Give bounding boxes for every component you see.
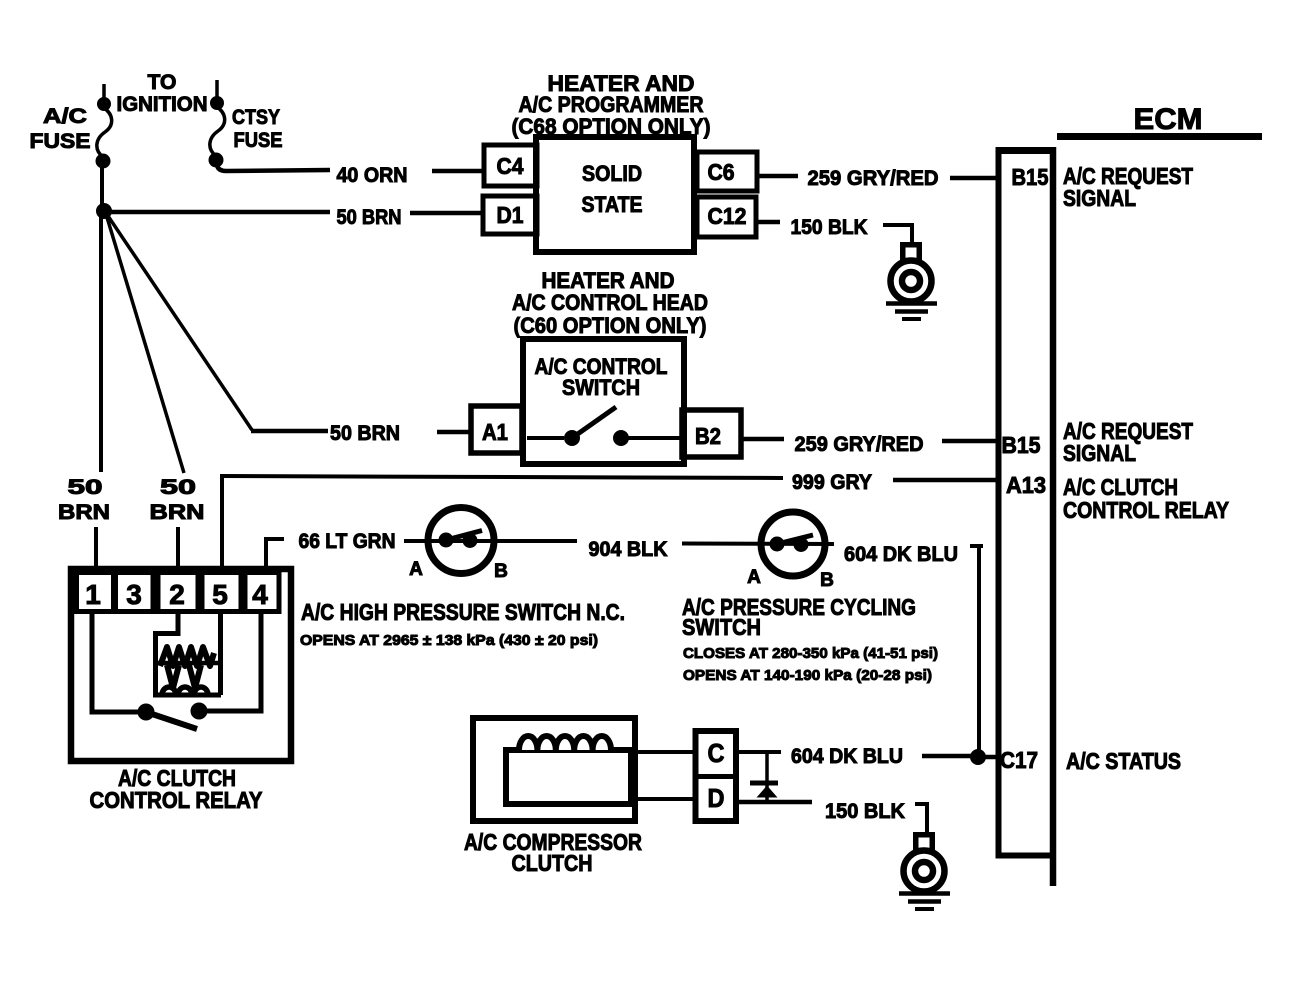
svg-text:2: 2 — [169, 579, 185, 610]
relay pin 4 — [245, 573, 279, 612]
wire 150 BLK to ground G1 — [883, 225, 912, 244]
wire to relay pin 1 — [94, 527, 98, 571]
wire B2 to 259 GRY/RED — [739, 437, 784, 442]
wire 40 ORN to C4 — [432, 169, 486, 174]
fuse CTSY FUSE — [209, 97, 225, 168]
svg-text:50 BRN: 50 BRN — [337, 206, 402, 229]
fuse A/C FUSE — [96, 98, 112, 169]
svg-text:A/C: A/C — [43, 105, 87, 128]
wire 259 GRY/RED to ECM B15 — [950, 176, 997, 181]
wire to relay pin 2 — [176, 527, 180, 571]
wire diagonal junction to relay pin 2 — [106, 214, 184, 473]
svg-text:B15: B15 — [1002, 432, 1041, 458]
wire 66 LT GRN elbow to relay pin 4 — [266, 539, 284, 570]
junction node — [97, 204, 112, 219]
programmer SOLID STATE box — [536, 137, 694, 252]
svg-text:150 BLK: 150 BLK — [791, 216, 868, 239]
wire horizontal to 50 BRN (A1 row) — [251, 429, 328, 434]
svg-text:CLUTCH: CLUTCH — [512, 850, 593, 876]
wire 259 GRY/RED to ECM B15 row 2 — [942, 439, 997, 444]
wire 999 GRY horizontal — [222, 476, 783, 478]
svg-text:CTSY: CTSY — [232, 106, 280, 129]
svg-text:A1: A1 — [482, 419, 508, 445]
wire 66 LT GRN to high pressure switch — [404, 539, 577, 543]
wire pin D to 150 BLK — [736, 800, 812, 805]
wire coil to pin C — [633, 750, 697, 754]
wire 999 GRY to ECM A13 — [893, 478, 997, 483]
svg-text:C: C — [708, 738, 725, 768]
wire stub above A/C fuse — [102, 84, 106, 98]
wire C6 to 259 GRY/RED — [757, 174, 798, 179]
svg-text:SOLID: SOLID — [582, 161, 642, 186]
connector pin C4 — [484, 145, 537, 186]
wire from CTSY fuse to 40 ORN — [217, 165, 330, 171]
svg-text:SWITCH: SWITCH — [562, 375, 640, 400]
connector C/D housing — [696, 731, 737, 821]
wire relay switch to pin 4 — [207, 613, 261, 711]
svg-text:50: 50 — [68, 476, 103, 499]
svg-text:999 GRY: 999 GRY — [792, 471, 872, 494]
svg-text:A: A — [409, 559, 423, 580]
svg-text:50: 50 — [160, 476, 196, 499]
svg-text:OPENS AT 2965 ± 138 kPa (430 ±: OPENS AT 2965 ± 138 kPa (430 ± 20 psi) — [300, 632, 598, 649]
svg-text:3: 3 — [126, 579, 142, 610]
wire stub above CTSY fuse — [215, 80, 219, 97]
coil L1 compressor clutch coil — [519, 736, 611, 750]
svg-text:604 DK BLU: 604 DK BLU — [844, 543, 958, 566]
connector pin A1 — [471, 406, 522, 453]
ground G1 — [886, 242, 937, 319]
svg-text:C4: C4 — [497, 153, 524, 179]
wire 999 GRY down to relay pin 5 — [220, 474, 224, 571]
wire 150 BLK to ground G2 — [915, 804, 927, 832]
diode D1 clutch diode — [750, 752, 778, 802]
svg-text:A/C STATUS: A/C STATUS — [1066, 748, 1181, 774]
svg-text:(C60 OPTION ONLY): (C60 OPTION ONLY) — [514, 313, 707, 338]
pressure switch S1 A/C high pressure switch — [428, 508, 494, 574]
svg-text:TO: TO — [148, 71, 177, 94]
svg-text:A/C CONTROL HEAD: A/C CONTROL HEAD — [512, 290, 708, 315]
relay switch contacts — [138, 703, 207, 729]
svg-text:ECM: ECM — [1134, 103, 1203, 136]
wire junction down to relay pin 1 — [99, 215, 103, 472]
wire pin C to 604 DK BLU — [736, 750, 781, 754]
svg-text:SIGNAL: SIGNAL — [1063, 440, 1136, 466]
svg-text:5: 5 — [212, 579, 228, 610]
svg-text:STATE: STATE — [582, 192, 643, 217]
svg-text:FUSE: FUSE — [234, 129, 283, 152]
svg-text:SIGNAL: SIGNAL — [1063, 185, 1136, 211]
svg-text:B15: B15 — [1012, 164, 1049, 190]
wire relay pin 1 to switch contact — [92, 612, 140, 712]
relay pin 1 — [77, 573, 114, 612]
compressor clutch inner box — [506, 750, 631, 804]
wire A/C fuse down to junction — [100, 165, 104, 208]
svg-text:D1: D1 — [497, 202, 524, 228]
wire junction to 50 BRN (D1 row) — [111, 210, 330, 215]
svg-text:D: D — [708, 783, 725, 813]
wire relay pin 2 to coil — [176, 612, 181, 636]
relay pin 2 — [158, 573, 198, 612]
svg-text:C6: C6 — [708, 159, 735, 185]
svg-text:C17: C17 — [1000, 747, 1038, 773]
svg-text:BRN: BRN — [150, 501, 205, 524]
svg-text:604 DK BLU: 604 DK BLU — [791, 745, 903, 768]
svg-text:50 BRN: 50 BRN — [330, 422, 400, 445]
wire C12 to 150 BLK — [756, 220, 780, 225]
connector pin B2 — [682, 410, 741, 457]
svg-text:SWITCH: SWITCH — [682, 614, 761, 640]
relay pin 5 — [202, 573, 241, 612]
relay coil K1 — [155, 612, 221, 695]
switch contacts inside A/C control switch — [527, 407, 680, 446]
ground G2 — [899, 832, 950, 909]
svg-text:BRN: BRN — [58, 501, 110, 524]
svg-text:FUSE: FUSE — [30, 130, 91, 153]
svg-text:OPENS AT 140-190 kPa (20-28 ps: OPENS AT 140-190 kPa (20-28 psi) — [683, 667, 932, 684]
svg-text:4: 4 — [252, 579, 268, 610]
svg-text:B: B — [820, 570, 834, 591]
svg-text:1: 1 — [85, 579, 101, 610]
compressor clutch outer box — [473, 718, 635, 821]
wire diagonal junction to 50 BRN (A1 row) — [106, 213, 252, 430]
svg-text:B2: B2 — [695, 423, 721, 449]
wire 904 BLK to pressure cycling switch — [682, 542, 834, 547]
svg-text:C12: C12 — [708, 203, 747, 229]
relay pin 3 — [116, 573, 154, 612]
svg-text:IGNITION: IGNITION — [117, 93, 208, 116]
svg-text:A13: A13 — [1006, 472, 1046, 498]
wire coil to pin D — [633, 797, 697, 801]
connector pin D1 — [483, 196, 537, 234]
ECM connector column — [996, 147, 1057, 886]
svg-text:259 GRY/RED: 259 GRY/RED — [808, 167, 939, 190]
svg-text:66 LT GRN: 66 LT GRN — [299, 530, 396, 553]
svg-text:B: B — [494, 561, 508, 582]
wire 50 BRN to D1 — [410, 211, 485, 216]
junction node at C17 wire — [971, 750, 986, 765]
connector pin C6 — [697, 152, 757, 191]
svg-text:40 ORN: 40 ORN — [337, 164, 408, 187]
ECM top bar — [1057, 133, 1262, 140]
relay A/C CLUTCH CONTROL RELAY box — [71, 569, 291, 761]
svg-text:A/C HIGH PRESSURE SWITCH N.C.: A/C HIGH PRESSURE SWITCH N.C. — [301, 599, 625, 625]
svg-text:A: A — [747, 567, 761, 588]
wire junction to ECM C17 — [984, 755, 997, 760]
wire 604 DK BLU down to C17 junction — [970, 544, 983, 548]
wire 604 DK BLU to junction — [922, 754, 972, 759]
svg-text:CONTROL RELAY: CONTROL RELAY — [1063, 497, 1229, 523]
svg-text:150 BLK: 150 BLK — [825, 800, 905, 823]
wire 50 BRN to A1 — [437, 430, 473, 435]
svg-text:904 BLK: 904 BLK — [589, 538, 668, 561]
connector pin C12 — [697, 197, 756, 237]
svg-text:CONTROL RELAY: CONTROL RELAY — [90, 787, 263, 813]
svg-text:259 GRY/RED: 259 GRY/RED — [795, 433, 924, 456]
pressure switch S2 A/C pressure cycling switch — [761, 512, 825, 576]
svg-text:CLOSES AT 280-350 kPa (41-51 p: CLOSES AT 280-350 kPa (41-51 psi) — [683, 645, 938, 662]
A/C control switch box — [523, 339, 684, 464]
